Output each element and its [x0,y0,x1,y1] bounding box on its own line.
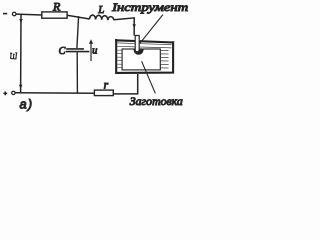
inductor L [90,15,114,20]
resistor R [42,12,67,18]
svg-text:R: R [52,0,61,14]
current arrow top-left [19,19,22,23]
tank (bath) [116,40,173,73]
current arrow on tool wire [133,24,136,28]
voltage arrow u [90,44,92,62]
tool electrode rod [135,36,139,52]
label E (rotated) [10,53,17,59]
workpiece (Заготовка) block [122,49,160,70]
wire resistor to inductor [67,15,89,19]
svg-text:а): а) [20,96,34,111]
dielectric liquid lines [117,43,171,68]
terminal plus [3,92,7,96]
capacitor branch upper wire [77,16,79,48]
leader line to tool [140,15,163,44]
leader line to workpiece [142,61,156,93]
capacitor branch lower wire [76,52,78,92]
node: left branch wire [20,14,22,92]
spark gap / crater [134,49,144,55]
svg-text:Інструмент: Інструмент [111,0,189,14]
tank rim nubs [116,39,173,43]
capacitor C plates [66,48,84,50]
wire bottom from terminal to resistor r [15,92,94,95]
wire inductor to corner [114,18,134,36]
wire top from terminal to resistor R [16,13,42,16]
svg-text:r: r [104,80,109,92]
svg-text:L: L [97,4,104,16]
svg-text:u: u [92,45,97,56]
resistor r [94,90,113,96]
terminal circle top [12,12,16,16]
terminal minus dash [3,13,7,15]
svg-text:Заготовка: Заготовка [130,96,183,108]
svg-text:C: C [59,46,66,57]
wire resistor r to tank [113,74,137,94]
current arrow bottom-left [19,85,22,89]
terminal circle bottom [12,91,15,94]
